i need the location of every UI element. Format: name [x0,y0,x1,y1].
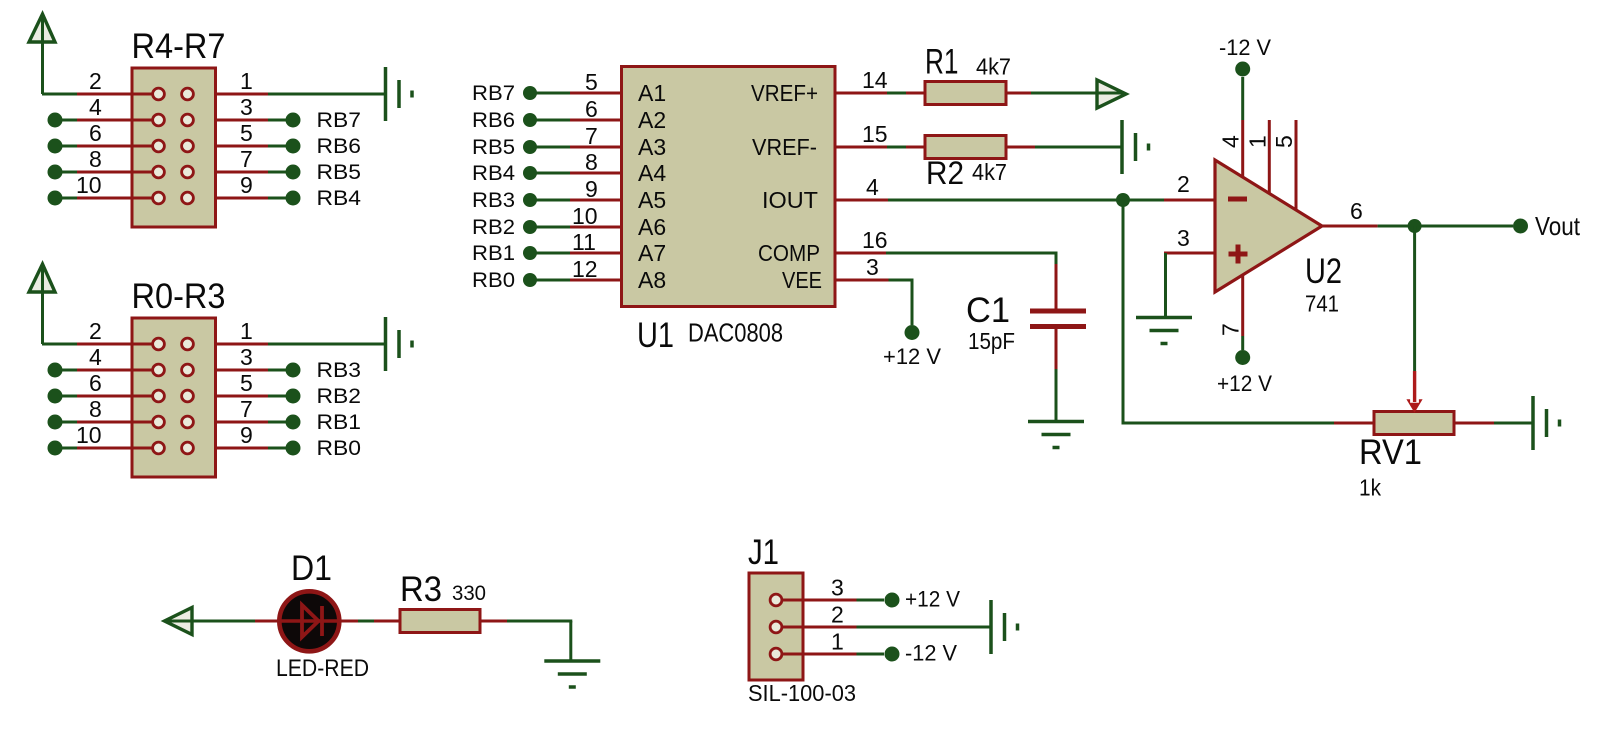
U1 pin 11 wire [570,252,622,255]
svg-text:4: 4 [89,344,102,370]
svg-text:3: 3 [240,94,253,120]
U1 pin 14 VREF+ wire [835,92,887,95]
svg-text:7: 7 [585,123,598,149]
svg-text:DAC0808: DAC0808 [688,318,783,348]
U1 pin 11 terminal RB1 [523,246,537,260]
svg-text:6: 6 [585,96,598,122]
svg-text:9: 9 [240,422,253,448]
svg-text:7: 7 [1218,323,1244,336]
R0-R3 pin 10 wire [48,441,63,456]
svg-text:R1: R1 [925,43,959,82]
R4-R7 pin 7 wire [215,171,268,174]
svg-text:+12 V: +12 V [905,587,960,612]
U1 pin 10 wire [570,226,622,229]
U2 pin 3 wire [1164,252,1215,255]
power terminal +12V at J1 [885,593,900,608]
R0-R3 pin 1 wire [215,343,268,346]
R4-R7 pin circles row 1 [153,88,165,100]
svg-text:3: 3 [866,254,879,280]
arrow terminal at D1 [165,608,193,635]
ground at C1 [1028,420,1084,424]
connector R0-R3 (2x5 header) [0,0,1,1]
R0-R3 pin circles row 1 [153,338,165,350]
wire R1 to output arrow [1031,92,1124,95]
U2 pin 1 wire [1268,120,1271,194]
svg-text:RB4: RB4 [472,162,515,185]
U1 pin 6 wire [570,119,622,122]
connector R4-R7 (2x5 header) [0,0,1,1]
svg-text:VREF+: VREF+ [751,80,818,106]
svg-text:A4: A4 [638,160,666,186]
U2 pin 2 wire [1164,199,1215,202]
svg-text:14: 14 [862,67,888,93]
svg-text:COMP: COMP [758,240,820,266]
svg-text:2: 2 [89,68,102,94]
U2 pin 6 wire [1322,225,1378,228]
R4-R7 pin 10 wire [48,191,63,206]
wire pin1 to ground [268,343,386,346]
svg-text:2: 2 [89,318,102,344]
wire pin4 to -12V [1241,77,1244,120]
svg-text:RB7: RB7 [472,82,515,105]
wire IOUT to op-amp [888,199,1164,202]
wire arrow to D1 [166,620,255,623]
R0-R3 pin 9 wire [215,447,268,450]
wire J1 pin3 to +12V [857,599,885,602]
svg-text:1: 1 [240,68,253,94]
wire pin3 to ground [1164,253,1167,318]
power arrow terminal for R4-R7 [29,14,55,42]
svg-text:4: 4 [1218,135,1244,148]
U1 pin 9 wire [570,199,622,202]
U2 pin 4 wire [1241,120,1244,178]
resistor R2 [906,146,925,149]
U2 minus symbol [1228,197,1247,202]
svg-text:J1: J1 [748,533,779,572]
wire RV1 to ground [1494,422,1533,425]
J1 pin 2 circle [770,621,782,633]
wire R2 to ground [1035,146,1122,149]
power arrow terminal for R0-R3 [29,264,55,292]
svg-text:+12 V: +12 V [1217,371,1272,396]
svg-text:RV1: RV1 [1359,433,1422,472]
ground at U2 pin 3 [1136,316,1192,320]
wire pin1 to ground [268,93,386,96]
U1 pin 5 terminal RB7 [523,86,537,100]
svg-text:RB5: RB5 [472,136,515,159]
svg-text:8: 8 [89,396,102,422]
wire J1 pin2 to ground [857,626,992,629]
U1 pin 12 wire [570,279,622,282]
wire C1 to ground [1055,369,1058,422]
svg-text:RB6: RB6 [472,109,515,132]
svg-text:R0-R3: R0-R3 [132,277,226,316]
svg-text:R2: R2 [926,155,964,191]
R4-R7 pin 3 wire [215,119,268,122]
power terminal +12V at VEE [905,325,920,340]
svg-text:A5: A5 [638,187,666,213]
resistor R1 [906,92,925,95]
svg-text:3: 3 [831,575,844,601]
svg-text:4k7: 4k7 [976,54,1011,80]
svg-text:RB0: RB0 [472,269,515,292]
R0-R3 pin 6 wire [48,389,63,404]
U1 pin 16 COMP wire [835,252,886,255]
svg-text:4k7: 4k7 [972,159,1007,185]
svg-text:3: 3 [1177,225,1190,251]
U1 pin 6 terminal RB6 [523,113,537,127]
svg-text:-12 V: -12 V [905,641,957,666]
svg-text:+12 V: +12 V [883,344,941,369]
op-amp U2 body [1215,160,1322,292]
svg-text:Vout: Vout [1535,211,1581,241]
svg-text:RB1: RB1 [317,411,362,434]
wire RV1 wiper from output [1413,226,1416,371]
wire J1 pin1 to -12V [857,653,885,656]
svg-text:A1: A1 [638,80,666,106]
R4-R7 pin 2 wire [77,93,152,96]
R0-R3 pin 8 wire [48,415,63,430]
svg-text:7: 7 [240,396,253,422]
svg-text:10: 10 [76,422,102,448]
svg-text:A2: A2 [638,107,666,133]
potentiometer RV1 [1334,422,1374,425]
R0-R3 pin circles row 2 [153,364,165,376]
J1 pin 3 wire [783,599,857,602]
U1 pin 15 VREF- wire [835,146,887,149]
svg-text:VEE: VEE [782,267,822,293]
svg-text:8: 8 [585,149,598,175]
svg-text:1: 1 [240,318,253,344]
svg-text:RB6: RB6 [317,135,362,158]
U1 pin 3 VEE wire [835,279,889,282]
svg-text:R3: R3 [400,570,442,609]
svg-text:5: 5 [240,120,253,146]
wire VEE to +12V [889,279,914,282]
R0-R3 pin 5 wire [215,395,268,398]
svg-text:2: 2 [1177,171,1190,197]
wire output to Vout [1378,225,1513,228]
ground (rotated) at R2 [1120,120,1124,174]
svg-text:4: 4 [89,94,102,120]
svg-text:8: 8 [89,146,102,172]
J1 pin 3 circle [770,594,782,606]
svg-text:D1: D1 [291,549,332,588]
svg-text:U1: U1 [637,316,674,355]
svg-text:R4-R7: R4-R7 [132,27,226,66]
J1 pin 2 wire [783,626,857,629]
svg-text:1: 1 [1244,135,1270,148]
svg-text:A8: A8 [638,267,666,293]
power terminal -12V at J1 [885,647,900,662]
svg-text:RB4: RB4 [317,187,362,210]
junction node output [1408,219,1422,233]
svg-text:7: 7 [240,146,253,172]
svg-text:SIL-100-03: SIL-100-03 [748,680,856,706]
J1 pin 1 wire [783,653,857,656]
svg-text:9: 9 [240,172,253,198]
svg-text:741: 741 [1305,291,1339,317]
wire [42,343,78,346]
R0-R3 pin 7 wire [215,421,268,424]
U2 plus symbol [1229,252,1248,257]
output arrow terminal [1097,80,1126,108]
R0-R3 pin circles row 4 [153,416,165,428]
U1 pin 8 terminal RB4 [523,166,537,180]
ground (rotated) at R0-R3 [384,317,388,371]
wire [42,93,78,96]
svg-text:6: 6 [89,120,102,146]
svg-text:RB2: RB2 [472,216,515,239]
svg-text:5: 5 [585,69,598,95]
svg-text:VREF-: VREF- [752,134,817,160]
wire COMP to C1 [886,252,1056,255]
svg-text:RB0: RB0 [317,437,362,460]
U1 pin 9 terminal RB3 [523,193,537,207]
U1 pin 8 wire [570,172,622,175]
svg-text:RB7: RB7 [317,109,362,132]
R4-R7 pin 9 wire [215,197,268,200]
connector R0-R3 body [132,318,216,477]
svg-text:4: 4 [866,174,879,200]
svg-text:5: 5 [1271,135,1297,148]
U1 DAC0808 body [622,67,836,307]
wire R3 to ground [507,620,572,623]
svg-text:1k: 1k [1359,475,1381,501]
svg-text:6: 6 [89,370,102,396]
U1 pin 12 terminal RB0 [523,273,537,287]
svg-text:RB1: RB1 [472,242,515,265]
wire feedback vertical [1122,200,1125,425]
svg-text:16: 16 [862,227,888,253]
J1 pin 1 circle [770,648,782,660]
R0-R3 pin circles row 3 [153,390,165,402]
svg-text:LED-RED: LED-RED [276,655,369,682]
U1 pin 4 IOUT wire [835,199,888,202]
LED D1 [255,620,278,623]
R4-R7 pin circles row 2 [153,114,165,126]
svg-text:10: 10 [76,172,102,198]
svg-text:RB2: RB2 [317,385,362,408]
svg-text:RB3: RB3 [472,189,515,212]
junction node feedback [1116,193,1130,207]
connector J1 body [749,573,803,680]
svg-text:A6: A6 [638,214,666,240]
ground (rotated) at RV1 [1531,396,1535,450]
ground at R3 [544,659,600,663]
R4-R7 pin circles row 3 [153,140,165,152]
terminal Vout [1513,219,1528,234]
R4-R7 pin 8 wire [48,165,63,180]
R4-R7 pin 5 wire [215,145,268,148]
svg-text:6: 6 [1350,198,1363,224]
power terminal -12V [1235,62,1250,77]
svg-text:1: 1 [831,629,844,655]
U2 pin 7 wire [1241,274,1244,336]
wire feedback horizontal [1122,422,1335,425]
svg-text:C1: C1 [966,291,1010,330]
svg-text:IOUT: IOUT [762,187,818,213]
svg-text:9: 9 [585,176,598,202]
svg-text:10: 10 [572,203,598,229]
R0-R3 pin circles row 5 [153,442,165,454]
svg-text:330: 330 [452,582,486,605]
svg-text:A7: A7 [638,240,666,266]
svg-text:11: 11 [572,229,596,255]
U1 pin 10 terminal RB2 [523,220,537,234]
capacitor C1 [1055,264,1058,309]
svg-text:15pF: 15pF [968,328,1015,354]
R0-R3 pin 3 wire [215,369,268,372]
svg-text:-12 V: -12 V [1219,35,1271,60]
ground (rotated) at J1 [989,600,993,654]
R4-R7 pin 4 wire [48,113,63,128]
resistor R3 [341,620,358,623]
wire pin7 to +12V [1241,336,1244,350]
svg-text:A3: A3 [638,134,666,160]
R0-R3 pin 4 wire [48,363,63,378]
svg-text:RB5: RB5 [317,161,362,184]
svg-text:U2: U2 [1305,252,1342,291]
svg-text:15: 15 [862,121,888,147]
ground (rotated) at R4-R7 [384,67,388,121]
svg-text:5: 5 [240,370,253,396]
power terminal +12V at U2 [1235,350,1250,365]
U1 pin 5 wire [570,92,622,95]
svg-text:12: 12 [572,256,598,282]
R0-R3 pin 2 wire [77,343,152,346]
R4-R7 pin 1 wire [215,93,268,96]
U1 pin 7 wire [570,146,622,149]
svg-text:3: 3 [240,344,253,370]
connector R4-R7 body [132,68,216,227]
U2 pin 5 wire [1295,120,1298,210]
R4-R7 pin circles row 4 [153,166,165,178]
svg-text:RB3: RB3 [317,359,362,382]
U1 pin 7 terminal RB5 [523,140,537,154]
svg-text:2: 2 [831,602,844,628]
R4-R7 pin circles row 5 [153,192,165,204]
R4-R7 pin 6 wire [48,139,63,154]
RV1 wiper arrow [1413,371,1416,402]
